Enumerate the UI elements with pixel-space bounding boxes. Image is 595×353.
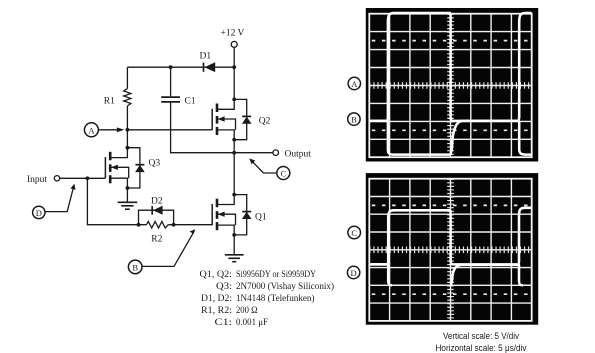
svg-text:Q1, Q2:: Q1, Q2:	[200, 270, 233, 280]
trace B circle label	[348, 113, 360, 125]
node B circle label	[128, 260, 142, 274]
Output terminal	[273, 150, 279, 156]
scope 1 center axes	[369, 14, 531, 158]
trace C circle label	[348, 226, 361, 239]
ground (Q3 source)	[118, 188, 138, 209]
scope 2 trace C	[369, 208, 531, 265]
node A junction	[126, 128, 130, 132]
scope 1 axis ticks horizontal	[369, 82, 531, 89]
scope 1 grid rows	[369, 32, 531, 140]
svg-text:R1, R2:: R1, R2:	[201, 306, 232, 316]
svg-text:C: C	[351, 228, 357, 238]
svg-text:C: C	[280, 169, 286, 179]
Input terminal	[54, 176, 59, 181]
wire input to Q3 gate	[60, 177, 106, 179]
component value list	[200, 270, 335, 328]
svg-text:Input: Input	[27, 175, 47, 185]
svg-text:B: B	[351, 114, 357, 124]
scope 2 grid rows	[369, 197, 531, 304]
scope 2 dashed row lower	[372, 293, 532, 295]
node C circle label	[277, 167, 290, 180]
scope 2 bezel	[366, 173, 538, 325]
svg-text:Vertical scale: 5 V/div: Vertical scale: 5 V/div	[443, 331, 519, 341]
wire input branch down to R2	[87, 178, 146, 224]
svg-text:D: D	[351, 268, 357, 278]
wire R2 to Q1 gate	[168, 224, 212, 226]
node D2 right junction	[172, 223, 176, 227]
scope 1 axis ticks vertical	[447, 14, 454, 158]
transistor Q2	[212, 98, 251, 142]
node D circle label	[33, 206, 45, 218]
scope 1 bezel	[366, 8, 538, 162]
svg-text:R2: R2	[151, 235, 162, 245]
svg-text:R1: R1	[104, 96, 115, 106]
svg-text:Q1: Q1	[255, 213, 267, 223]
svg-text:D: D	[36, 208, 42, 218]
svg-text:Output: Output	[285, 150, 312, 160]
scope 2 axis ticks horizontal	[369, 247, 531, 254]
scope 2 grid columns	[390, 179, 512, 321]
svg-text:0.001 μF: 0.001 μF	[236, 318, 268, 328]
ground (Q1 source)	[225, 235, 244, 262]
svg-text:Q3: Q3	[149, 159, 161, 169]
wire +12V down to Q2 drain	[233, 47, 235, 99]
svg-text:+12 V: +12 V	[221, 29, 245, 39]
scope 1 trace B	[369, 121, 531, 155]
transistor Q1	[212, 193, 251, 237]
scope 1 grid columns	[390, 14, 512, 158]
svg-text:Horizontal scale: 5 μs/div: Horizontal scale: 5 μs/div	[436, 343, 527, 353]
+12V terminal	[231, 41, 237, 47]
transistor Q3	[105, 146, 144, 190]
diode D1	[200, 52, 216, 73]
svg-text:C1: C1	[185, 97, 196, 107]
svg-text:D1: D1	[200, 52, 212, 62]
scope 2 center axes	[369, 179, 531, 321]
scope 1 graticule frame	[369, 14, 531, 158]
svg-text:Q2: Q2	[259, 117, 271, 127]
node C leader arrow	[249, 158, 276, 173]
svg-text:B: B	[132, 263, 138, 273]
node A circle label	[84, 123, 98, 137]
node top rail junction	[232, 65, 236, 69]
svg-text:A: A	[88, 125, 95, 135]
oscilloscope photo 2 (traces C and D)	[347, 173, 538, 325]
resistor R2	[146, 221, 168, 244]
wire C1 bottom to output line	[171, 103, 273, 153]
node A arrow	[98, 127, 124, 132]
svg-text:A: A	[351, 79, 358, 89]
wire node A down to Q3 drain	[126, 130, 128, 148]
output junction node	[232, 151, 236, 155]
diode D2	[151, 197, 163, 215]
scope 2 trace D	[369, 264, 392, 285]
resistor R1	[104, 67, 131, 130]
trace A circle label	[348, 77, 360, 89]
capacitor C1	[161, 67, 196, 106]
scope 2 axis ticks vertical	[447, 179, 454, 321]
svg-text:Q3:: Q3:	[216, 282, 232, 292]
scope 1 dashed row upper	[372, 40, 532, 42]
svg-text:D1, D2:: D1, D2:	[201, 294, 232, 304]
node C1 top junction	[169, 65, 173, 69]
wire top rail	[127, 66, 234, 68]
node D2 left junction	[137, 223, 141, 227]
svg-text:200 Ω: 200 Ω	[236, 306, 258, 316]
trace D circle label	[347, 266, 359, 278]
scope 2 graticule frame	[369, 179, 531, 321]
oscilloscope photo 1 (traces A and B)	[348, 8, 538, 162]
svg-text:C1:: C1:	[215, 318, 233, 328]
svg-text:2N7000 (Vishay Siliconix): 2N7000 (Vishay Siliconix)	[236, 281, 334, 292]
scope 1 dashed row lower	[372, 129, 532, 131]
svg-text:Si9956DY or Si9959DY: Si9956DY or Si9959DY	[236, 270, 316, 280]
scope 2 dashed row upper	[372, 204, 532, 206]
scope 1 trace A	[369, 13, 531, 121]
node D leader arrow	[45, 184, 76, 212]
node B leader arrow	[142, 229, 195, 266]
input branch junction	[86, 176, 90, 180]
svg-text:1N4148 (Telefunken): 1N4148 (Telefunken)	[236, 293, 315, 304]
D2 branch wires	[139, 210, 174, 225]
wire Q2 gate to node A	[127, 129, 212, 131]
wire Q2 source to Q1 drain (output vertical)	[233, 140, 235, 195]
svg-text:D2: D2	[151, 197, 163, 207]
